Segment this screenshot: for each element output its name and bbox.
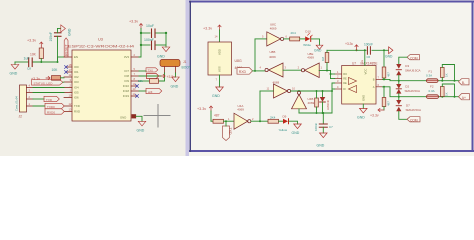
- U7 right pins: [373, 75, 383, 89]
- svg-text:C7: C7: [329, 125, 333, 129]
- svg-text:SMAJ6.5CA: SMAJ6.5CA: [406, 108, 422, 112]
- op IC U7 MAX1485 body: [342, 62, 378, 104]
- right sheet frame: [189, 1, 474, 153]
- svg-text:TXD: TXD: [228, 128, 232, 135]
- svg-text:487: 487: [387, 72, 391, 77]
- bias resistor 487 (upper, B line): [382, 50, 390, 79]
- ground (U8G): [212, 75, 223, 98]
- svg-text:4069: 4069: [270, 27, 277, 31]
- wire +3.3v rail (U7 VCC): [327, 49, 388, 51]
- svg-text:1K: 1K: [444, 92, 448, 96]
- connector J2 body: [15, 85, 27, 119]
- resistor 10k (IO9 row): [138, 79, 159, 84]
- svg-text:1uF: 1uF: [24, 57, 30, 61]
- label TXD (hexagon at J2.2): [44, 96, 59, 102]
- resistor 10K (IO2 row): [52, 68, 65, 80]
- label STATUS_LED (hexagon): [32, 80, 65, 86]
- no-connect x marks (left pins): [65, 66, 68, 74]
- resistor 487 (TXD series): [213, 114, 234, 124]
- svg-text:100nF: 100nF: [314, 123, 318, 131]
- power +3.3v (U8G supply): [203, 25, 221, 42]
- ground (D10): [314, 45, 323, 52]
- ground (U7 bottom): [357, 104, 367, 120]
- svg-text:IO8: IO8: [124, 74, 129, 78]
- svg-text:U8B: U8B: [270, 50, 276, 54]
- svg-text:White: White: [303, 43, 311, 47]
- svg-text:GND: GND: [292, 131, 300, 135]
- svg-text:IO18: IO18: [123, 89, 130, 93]
- svg-text:10uF: 10uF: [146, 24, 154, 28]
- wire J2.2 to label: [33, 98, 44, 100]
- svg-text:Conn_01x04: Conn_01x04: [15, 96, 19, 111]
- op-amp U4B 4069 (up-pointing): [292, 91, 315, 109]
- svg-text:RO: RO: [343, 72, 347, 76]
- terminal label B-: [459, 79, 470, 85]
- svg-text:VDD: VDD: [218, 49, 222, 55]
- svg-text:IO1: IO1: [74, 70, 79, 74]
- svg-text:COM: COM: [410, 56, 418, 60]
- svg-text:IO2: IO2: [74, 75, 79, 79]
- wire A row: [383, 86, 459, 98]
- wire J1 left leg to IO9 row: [159, 67, 165, 82]
- svg-text:SMAJ6.5CA: SMAJ6.5CA: [405, 69, 421, 73]
- wire RXD row to U8B output: [253, 70, 265, 72]
- op IC U8G 4069 power unit: [208, 42, 242, 75]
- svg-text:GND: GND: [171, 85, 179, 89]
- svg-text:VSS: VSS: [218, 66, 222, 72]
- U3 right pin names: [123, 55, 130, 98]
- svg-text:GND: GND: [357, 116, 365, 120]
- ground (left of 1uF): [10, 62, 19, 76]
- svg-text:ESP32-C3-WROOM-02-H4: ESP32-C3-WROOM-02-H4: [68, 45, 134, 49]
- connector label COM (bottom): [407, 117, 420, 123]
- zener LM4040: [320, 91, 330, 113]
- svg-text:+3.3v: +3.3v: [345, 42, 353, 46]
- junctions cap rails: [140, 32, 167, 46]
- svg-text:U7: U7: [352, 62, 356, 66]
- svg-text:GND: GND: [317, 144, 325, 148]
- svg-text:487: 487: [214, 114, 220, 118]
- svg-text:RE: RE: [343, 77, 347, 81]
- svg-text:2K4: 2K4: [291, 31, 297, 35]
- fuse F1 0.3A: [426, 70, 438, 83]
- op IC U3 ESP32-C3-WROOM-02 body: [68, 37, 134, 122]
- svg-text:IO19: IO19: [123, 94, 130, 98]
- svg-text:10K: 10K: [30, 53, 37, 57]
- svg-text:GND: GND: [157, 55, 165, 59]
- resistor 1K8 (divider): [315, 91, 319, 113]
- svg-text:J2: J2: [19, 115, 23, 119]
- wire cap top row: [141, 32, 166, 34]
- svg-text:2K4: 2K4: [270, 115, 276, 119]
- U3 right pin numbers: [133, 53, 136, 96]
- wire J2.3 to IO5: [33, 92, 64, 94]
- left sheet right border (lavender strip): [186, 0, 190, 156]
- no-connect x marks (right pins): [136, 85, 139, 98]
- svg-text:RXD0: RXD0: [47, 110, 55, 114]
- TVS D2 SMAJ6.5CA (between B and A): [396, 81, 420, 97]
- terminal label A+: [459, 94, 470, 100]
- svg-text:C8: C8: [27, 67, 31, 71]
- svg-text:10K: 10K: [52, 68, 59, 72]
- svg-text:1M: 1M: [321, 56, 325, 61]
- op-amp U8D 4069 inverter (third row): [267, 81, 296, 98]
- svg-text:IO0: IO0: [74, 65, 79, 69]
- svg-text:IO9: IO9: [124, 79, 129, 83]
- svg-text:4069: 4069: [237, 108, 244, 112]
- svg-text:GND: GND: [385, 55, 393, 59]
- svg-text:+3.3v: +3.3v: [167, 75, 176, 79]
- bottom rail (reference node): [299, 109, 332, 114]
- wire U8E in from 1M node: [319, 70, 330, 72]
- right sheet background: [189, 0, 474, 156]
- svg-text:RXD: RXD: [239, 70, 247, 74]
- svg-text:IO3: IO3: [74, 80, 79, 84]
- ground (D9): [292, 124, 302, 135]
- svg-text:GND: GND: [137, 129, 145, 133]
- wire U8E node to RO/RE: [330, 71, 335, 79]
- svg-text:GND: GND: [212, 94, 220, 98]
- wire EN node vertical: [40, 59, 42, 63]
- svg-text:DE: DE: [343, 81, 347, 85]
- svg-text:B-: B-: [462, 81, 465, 85]
- svg-text:100nF: 100nF: [49, 32, 53, 41]
- svg-text:U8G: U8G: [235, 59, 242, 63]
- wire U8D input riser: [259, 91, 274, 122]
- TVS D3 SMAJ6.5CA: [396, 64, 420, 81]
- jumper J1 BOOT body: [160, 60, 191, 70]
- wire riser to U8C input: [255, 39, 267, 71]
- wire J2.4 to IO4: [33, 87, 64, 89]
- svg-text:+3.3v: +3.3v: [197, 107, 206, 111]
- svg-text:IO5: IO5: [74, 91, 79, 95]
- left sheet background: [0, 0, 189, 156]
- ground (rail end, rotated right): [385, 47, 393, 59]
- label wifi (hexagon IO18 row): [139, 88, 162, 94]
- svg-text:100nF: 100nF: [144, 38, 154, 42]
- svg-text:DI: DI: [343, 87, 346, 91]
- svg-text:+3.3v: +3.3v: [129, 20, 138, 24]
- svg-text:3V3: 3V3: [124, 55, 130, 59]
- svg-text:LM4040: LM4040: [326, 99, 330, 110]
- TVS D7 SMAJ6.5CA (A to COM): [396, 97, 421, 120]
- ground (top, rotated right): [58, 25, 72, 36]
- U3 left pin numbers: [67, 53, 72, 112]
- label hexagon (IO8 row) + power +3.3v: [139, 73, 175, 79]
- wire VCC drop: [362, 50, 365, 65]
- svg-text:Yellow: Yellow: [279, 128, 288, 132]
- op-amp U4A 4069 inverter: [228, 104, 254, 129]
- svg-text:+3.3v: +3.3v: [370, 113, 379, 117]
- svg-text:RXD: RXD: [74, 110, 80, 114]
- op-amp U8B 4069 inverter (mirrored): [260, 50, 287, 77]
- wire J2.1 to TXD pin: [33, 105, 64, 107]
- label RXD0 (hexagon) + wire to RXD pin: [45, 109, 64, 115]
- capacitor 10uF: [146, 24, 155, 38]
- ground (J1): [171, 77, 180, 89]
- svg-text:+3.3v: +3.3v: [27, 39, 36, 43]
- svg-text:wifi: wifi: [148, 90, 153, 94]
- U3 GND pin (bottom right): [120, 114, 142, 121]
- power +3.3v (IO2 pullup, arrow right): [31, 76, 50, 81]
- wire DE/DI taps: [331, 83, 335, 113]
- wire to A+: [0, 0, 1, 1]
- svg-text:4069: 4069: [269, 55, 276, 59]
- op-amp U8C 4069 inverter: [262, 22, 288, 46]
- U3 left pin names: [74, 55, 80, 113]
- junction node EN: [40, 61, 58, 63]
- wire to B-: [0, 0, 1, 1]
- svg-text:TX0: TX0: [148, 69, 154, 73]
- svg-text:1K: 1K: [444, 73, 448, 77]
- svg-text:10k: 10k: [138, 79, 143, 83]
- bias resistor (B- pull): [441, 65, 455, 81]
- wire horizontal 1uF row: [15, 61, 58, 63]
- wire U8D out: [291, 90, 332, 92]
- svg-text:STATUS_LED: STATUS_LED: [34, 81, 54, 85]
- svg-text:D10: D10: [305, 30, 311, 34]
- svg-text:A+: A+: [462, 96, 466, 100]
- svg-text:J1: J1: [183, 60, 187, 64]
- ground (below U3): [137, 121, 146, 132]
- label hexagon (IO7 row): [139, 68, 158, 73]
- global label RXD: [237, 68, 253, 75]
- svg-text:C6: C6: [367, 55, 371, 59]
- power +3.3v (bias, arrow left): [370, 108, 384, 117]
- svg-text:D9: D9: [283, 115, 287, 119]
- svg-text:EN: EN: [74, 55, 78, 59]
- ground (cap rail): [157, 47, 170, 59]
- capacitor C8 1uF: [24, 57, 33, 71]
- capacitor C6 100nF: [364, 42, 373, 59]
- svg-text:IO7: IO7: [124, 69, 129, 73]
- J2 pin stubs and numbers: [27, 84, 34, 107]
- svg-text:100nF: 100nF: [364, 42, 373, 46]
- svg-text:IO6: IO6: [74, 96, 79, 100]
- wire U8C out: [284, 38, 290, 40]
- wire 3.3v rail down to 3V3 pin: [139, 29, 141, 58]
- svg-text:GND: GND: [361, 95, 365, 101]
- svg-text:GND: GND: [314, 49, 322, 53]
- cursor crosshair: [144, 105, 170, 128]
- U7 internal buffer symbols: [349, 78, 357, 93]
- resistor R? 10K (EN pullup): [30, 46, 43, 59]
- wire right cap rail: [165, 33, 167, 47]
- bias resistor 487 (lower, A line): [382, 87, 390, 110]
- ground (C7): [317, 133, 328, 148]
- svg-text:A: A: [373, 85, 375, 89]
- LED D10 White: [303, 30, 319, 48]
- resistor 1M (pullup): [321, 50, 329, 70]
- svg-text:0.3A: 0.3A: [426, 74, 432, 78]
- connector label COM (top): [399, 55, 420, 64]
- wire to EN pin: [58, 57, 65, 62]
- svg-text:+3.3v: +3.3v: [203, 27, 212, 31]
- capacitor C? 100nF (EN to GND, vertical): [49, 29, 61, 63]
- svg-text:4069: 4069: [308, 101, 315, 105]
- svg-text:SMAJ6.5CA: SMAJ6.5CA: [405, 89, 421, 93]
- power +3.3v (rail arrow): [345, 42, 358, 51]
- svg-text:0.3A: 0.3A: [429, 89, 435, 93]
- U3 right pin stubs: [131, 57, 139, 96]
- op-amp U8E 4069 inverter (mirrored): [298, 52, 323, 78]
- LED D9 Yellow: [279, 115, 298, 132]
- wire J1 right leg: [175, 67, 177, 78]
- label RESET (rotated): [64, 38, 68, 57]
- svg-text:B: B: [373, 78, 375, 82]
- wire cap bottom row: [141, 44, 166, 46]
- svg-text:487: 487: [387, 101, 391, 106]
- bias resistor (A+ pull): [441, 84, 455, 97]
- global label TXD (vertical): [223, 121, 233, 140]
- svg-text:D7: D7: [406, 104, 410, 108]
- wire B row: [383, 78, 459, 81]
- capacitor C7 100nF (reference): [314, 113, 333, 133]
- svg-text:TXD: TXD: [46, 98, 53, 102]
- svg-text:TXD: TXD: [74, 104, 80, 108]
- svg-text:4069: 4069: [307, 56, 314, 60]
- wire U4A out: [251, 120, 268, 122]
- svg-text:D3: D3: [405, 64, 409, 68]
- svg-text:BOOT: BOOT: [182, 66, 191, 70]
- wire between U8B and U8E: [283, 69, 301, 71]
- U7 left pins: [335, 70, 347, 91]
- svg-text:GND: GND: [120, 116, 126, 120]
- power +3.3v (U4A input pullup): [197, 106, 213, 121]
- label TXD0 (hexagon): [45, 103, 64, 109]
- svg-text:TXD0: TXD0: [47, 105, 55, 109]
- svg-text:U3: U3: [98, 37, 103, 42]
- power +3.3v (decoupling rail): [129, 20, 143, 29]
- svg-text:IO4: IO4: [74, 86, 79, 90]
- svg-text:MAX1485E: MAX1485E: [361, 62, 378, 66]
- junction A loop: [454, 96, 456, 98]
- power +3.3V (top-left reset circuit): [27, 39, 43, 47]
- svg-text:IO10: IO10: [123, 84, 130, 88]
- svg-text:GND: GND: [68, 28, 72, 36]
- svg-text:GND: GND: [10, 72, 18, 76]
- resistor 2K4 (LED D9): [268, 115, 283, 123]
- svg-text:COM: COM: [410, 118, 418, 122]
- capacitor 100nF: [144, 38, 155, 50]
- resistor 2K4 (LED D10): [290, 31, 305, 41]
- U3 left pin stubs: [64, 57, 72, 112]
- svg-text:VCC: VCC: [363, 69, 367, 75]
- svg-text:+3.3v: +3.3v: [31, 77, 40, 81]
- fuse F2 0.3A: [427, 85, 439, 99]
